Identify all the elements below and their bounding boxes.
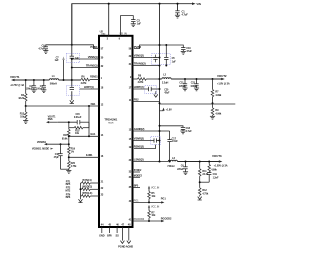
pin wire FB2 (133, 97, 160, 101)
pin wire PGOOD1 (133, 198, 162, 202)
svg-text:43.2k: 43.2k (18, 97, 24, 100)
junction top rail at right rail (158, 3, 160, 5)
svg-text:47uF: 47uF (186, 49, 192, 53)
svg-text:0.01uF: 0.01uF (74, 116, 82, 119)
svg-text:VOUT1: VOUT1 (10, 75, 20, 79)
svg-text:740nH: 740nH (167, 165, 174, 168)
capacitor C2 (output) (26, 80, 36, 90)
svg-text:47pF: 47pF (164, 92, 170, 95)
pin wire RSNS2 (134, 144, 156, 148)
svg-text:PVIN1: PVIN1 (90, 45, 98, 49)
svg-text:+1.8V @ 3A: +1.8V @ 3A (217, 82, 230, 85)
svg-text:PG1: PG1 (161, 197, 167, 201)
pin wire PVIN2 (134, 45, 160, 49)
dashed box comp ch2 (151, 137, 161, 145)
svg-text:FB1: FB1 (91, 102, 96, 106)
pin numbers left (101, 47, 104, 196)
svg-text:+0.75V @ 4A: +0.75V @ 4A (10, 84, 24, 87)
capacitor C15 (series, feedforward) (77, 120, 80, 124)
junction right rail TRANS2 (159, 65, 161, 67)
svg-text:1uF: 1uF (137, 21, 142, 25)
svg-text:SNS: SNS (48, 118, 53, 121)
svg-text:VCC_IN: VCC_IN (151, 206, 160, 209)
capacitor C16 branch (54, 144, 69, 169)
junction EA wire (68, 135, 90, 137)
svg-text:MT2: MT2 (65, 190, 70, 193)
junction ILIM (68, 156, 70, 158)
pin label FB1 (91, 102, 96, 106)
svg-text:+1.8V: +1.8V (166, 109, 173, 112)
capacitor C5a (boot ch2) (153, 55, 157, 63)
capacitor C5b (164, 44, 176, 67)
dashed box around C7 (66, 53, 79, 62)
IC U2 body (99, 36, 133, 227)
junction C22 (196, 78, 198, 80)
svg-text:(SYNC1): (SYNC1) (82, 179, 92, 182)
bottom pin stub AGND (107, 227, 112, 238)
resistor R21 (198, 162, 208, 188)
ground arrow snubber ch2 (154, 91, 158, 97)
svg-text:PGOOD2: PGOOD2 (134, 217, 145, 221)
inductor L1 (49, 74, 58, 85)
pin stub BP5 (nc) (133, 185, 141, 188)
label PGND AGND (118, 245, 133, 249)
ground arrow RT (78, 199, 82, 202)
svg-text:PVIN2: PVIN2 (134, 45, 142, 49)
capacitor C1 (175, 4, 188, 17)
port VOUT2 arrow (217, 74, 230, 85)
dashed box C5 ch2 (152, 54, 171, 65)
wire VOUT2 row (171, 78, 221, 80)
pin wire TRANS1 (72, 63, 99, 67)
junction comp left (68, 121, 70, 123)
svg-text:PGND AGND: PGND AGND (118, 245, 133, 249)
pin wire VSNR2 with series cap (133, 136, 160, 142)
resistor R8 (ch2 series) (133, 75, 160, 85)
bottom pin PGND (120, 227, 124, 243)
ground for C4 (41, 90, 46, 93)
port VOUT1 SNS arrow (46, 115, 58, 123)
svg-text:4.75k: 4.75k (71, 165, 77, 168)
capacitor C17 on vertical (167, 137, 178, 143)
junction rail VSNR2 (159, 140, 161, 142)
vertical x=169.6 (169, 131, 171, 162)
svg-text:PGOOD2: PGOOD2 (161, 216, 172, 220)
svg-text:VIN: VIN (196, 2, 200, 6)
bottom pin stub NC (116, 227, 120, 238)
svg-text:SYNC2: SYNC2 (134, 169, 142, 172)
pin wire TRANS2 (133, 61, 160, 65)
svg-text:4.75k: 4.75k (202, 192, 208, 195)
svg-text:(MODE2): (MODE2) (82, 185, 92, 188)
junction top rail at C1 (176, 3, 178, 5)
svg-text:2.87k: 2.87k (81, 82, 87, 85)
svg-text:4.99k: 4.99k (211, 168, 217, 171)
ground for C1 (175, 15, 180, 18)
junction rail AGND2 (159, 130, 161, 132)
junction PG2 (148, 220, 150, 222)
junction VOSNS1 wire at rail (60, 143, 70, 145)
pin wire SW2 row (133, 157, 169, 161)
ground for R20 (66, 170, 71, 173)
wire ILIM1 (69, 156, 99, 158)
RT row 1 (66, 179, 99, 186)
pin wire LDRT1 (80, 85, 99, 89)
pin label VIN (top pin 1) (101, 32, 105, 36)
svg-text:LDRT(1): LDRT(1) (84, 85, 94, 89)
junction left rail VSNS1 (71, 58, 73, 60)
svg-text:4.7uF: 4.7uF (38, 46, 45, 50)
inductor L2 (167, 156, 177, 168)
svg-text:80.6k: 80.6k (62, 137, 68, 140)
svg-text:FB2: FB2 (134, 97, 139, 101)
RC branch x=210.6 (208, 162, 218, 173)
svg-text:LDRT(2): LDRT(2) (134, 85, 144, 89)
wire comp top path (58, 106, 89, 136)
svg-text:VOUT2: VOUT2 (217, 74, 227, 78)
pin wire PGOOD2 (133, 217, 162, 221)
junction VOUT1 row at SW1 flag (63, 79, 65, 81)
junction FB node (25, 105, 27, 107)
svg-text:VOUT3: VOUT3 (212, 154, 222, 158)
svg-text:1uF: 1uF (172, 60, 177, 63)
junction right rail VSNS2 (159, 57, 161, 59)
pin stub MODE2 (nc) (133, 174, 143, 177)
junction VOUT1 row at rail (71, 79, 73, 81)
svg-text:4.7uF: 4.7uF (182, 12, 189, 16)
junction at R4 top (25, 79, 27, 81)
port VOUT1 arrow (10, 75, 24, 87)
flag +1.8V mid (160, 108, 173, 112)
arrow PG1 (161, 197, 167, 204)
pull-up R5 (148, 186, 160, 203)
capacitor C4 (output) (36, 80, 46, 91)
junction at C2 (33, 79, 35, 81)
capacitor C8 (snubber) (70, 88, 74, 90)
resistor R20 (68, 161, 78, 170)
capacitor C3 (VCC bypass) (131, 18, 141, 25)
arrow PG2 (161, 216, 172, 222)
pin numbers right (129, 47, 132, 221)
wire: U2_IN bracket (121, 16, 134, 36)
resistor R9 (lower divider ch2) (211, 103, 222, 116)
svg-text:VOSNS1_MODE: VOSNS1_MODE (32, 147, 50, 150)
svg-text:220uF: 220uF (179, 85, 186, 88)
ground for C21 (182, 88, 187, 91)
svg-text:47pF: 47pF (54, 156, 60, 159)
resistor R6 (series to pin) (81, 75, 99, 85)
junction RC branch top (208, 161, 210, 163)
svg-text:RGJR: RGJR (108, 123, 114, 125)
svg-text:4.7uF: 4.7uF (186, 130, 193, 133)
svg-text:VSNR(2): VSNR(2) (134, 136, 144, 140)
svg-text:2.2uH: 2.2uH (162, 82, 169, 85)
capacitor C7 (boot) (54, 56, 79, 62)
svg-text:VIN: VIN (101, 32, 105, 36)
svg-text:BP5: BP5 (107, 235, 112, 238)
junction C6 (185, 161, 187, 163)
svg-text:RSNS1: RSNS1 (90, 76, 98, 79)
wire: VIN pin drop (108, 4, 110, 36)
svg-text:RSNS(2): RSNS(2) (134, 144, 144, 148)
ground arrow divider (198, 197, 202, 200)
pin numbers bottom (101, 224, 131, 227)
svg-text:VCC_IN: VCC_IN (151, 186, 160, 189)
comp network labels C15 (74, 113, 82, 119)
svg-text:LSNS(2): LSNS(2) (134, 157, 144, 161)
RT row 2 (65, 185, 99, 192)
svg-text:560nH: 560nH (50, 83, 57, 86)
svg-text:2.87k: 2.87k (138, 81, 144, 84)
inductor L2 (160, 73, 172, 84)
port VOUT2 arrow (212, 154, 228, 167)
svg-text:VSNS(1): VSNS(1) (88, 55, 98, 59)
wire: VOUT1 row (15, 79, 81, 81)
junction right rail LDRT2 (159, 88, 161, 90)
svg-text:VSNS(2): VSNS(2) (134, 53, 144, 57)
svg-text:TRANS(1): TRANS(1) (86, 63, 98, 67)
wire FB2 to divider (160, 103, 236, 105)
junction PG1 (148, 201, 150, 203)
junction left rail at C9 (71, 44, 73, 46)
capacitor C9 (input bypass left) (38, 43, 71, 50)
net flag SW1 (grey arrow) (62, 56, 65, 80)
pull-up R7 (148, 205, 160, 221)
refdes U2 (100, 29, 104, 33)
svg-text:1.2nF: 1.2nF (213, 176, 219, 179)
pin wire PVIN1 (72, 45, 99, 49)
port VIN arrow (192, 2, 201, 6)
port VOSNS1 arrow (32, 141, 69, 151)
svg-text:100uF: 100uF (190, 85, 197, 88)
svg-text:MODE2: MODE2 (134, 174, 143, 177)
capacitor C21 (179, 79, 187, 88)
junction right rail PVIN2 (158, 44, 160, 46)
ground arrow below snubber ch1 (70, 100, 74, 103)
svg-text:BP6: BP6 (66, 196, 71, 199)
svg-text:4.99k: 4.99k (215, 94, 221, 97)
resistor R19 (68, 147, 76, 161)
capacitor C10 (181, 46, 192, 53)
wire comp bottom (EA1) (69, 128, 99, 147)
pin wire VSNS1 (72, 55, 99, 59)
junction at 89,106 (88, 105, 90, 107)
resistor R13 (lower divider) (20, 106, 27, 121)
ground for C9 (43, 51, 48, 54)
junction right rail FB2 (159, 102, 161, 104)
input cap wire ch2 (160, 45, 184, 48)
resistor R4 (upper divider) (18, 80, 27, 106)
wire: top VIN rail (72, 4, 192, 45)
svg-text:1.5nF: 1.5nF (172, 140, 179, 143)
junction top rail at VIN pin (108, 3, 110, 5)
svg-text:AGND(2): AGND(2) (134, 127, 145, 131)
junction VOUT2 divider top (212, 78, 214, 80)
ground for C22 (194, 88, 199, 91)
bottom pin stub GND (99, 227, 105, 238)
junction at C4 (43, 79, 45, 81)
dashed box snubber ch1 (66, 86, 79, 96)
svg-text:VOSNS1: VOSNS1 (37, 141, 47, 144)
svg-text:SS: SS (116, 235, 120, 238)
junction SW2 rail (158, 160, 170, 162)
pin label ILIM1 (86, 153, 93, 157)
ground for R13 (23, 121, 28, 124)
svg-text:4.99k: 4.99k (215, 112, 221, 115)
wire VOUT2 row (177, 161, 219, 163)
svg-text:220uF: 220uF (177, 168, 184, 171)
junction RT rail (80, 188, 82, 190)
ground for C10 (181, 51, 186, 54)
junction R21 top (199, 161, 201, 163)
junction C21 (184, 78, 186, 80)
pin stub SYNC2 (nc) (133, 169, 143, 172)
svg-text:+1.05V @ 3A: +1.05V @ 3A (214, 165, 228, 168)
pin label EA1 (90, 132, 96, 136)
right rail ch2 (159, 4, 161, 162)
wire mid cap ch2 (160, 126, 184, 128)
IC U2 part number label (104, 118, 117, 125)
label C20 47pF (164, 88, 170, 94)
resistor R7 (upper divider ch2) (211, 79, 222, 103)
capacitor C18 (181, 127, 192, 133)
wire FB1 node (26, 105, 99, 107)
capacitor C19 (200, 173, 219, 183)
left rail (BOOT/SW channel 1) (71, 4, 73, 101)
svg-text:GND: GND (99, 235, 105, 238)
svg-text:TPS54J061: TPS54J061 (104, 118, 117, 122)
pin wire AGND2 (133, 127, 170, 131)
ground for R9 (210, 116, 215, 119)
label R16 80.6k (62, 134, 68, 140)
ground for C3 (131, 24, 136, 27)
svg-text:ILIM1: ILIM1 (86, 153, 93, 157)
junction right rail R8 (158, 78, 160, 80)
ground for C6 (183, 172, 188, 175)
capacitor C22 (190, 79, 198, 88)
svg-text:PG1: PG1 (134, 198, 140, 202)
svg-text:TRANS(2): TRANS(2) (134, 61, 146, 65)
capacitor C6 (177, 162, 188, 172)
pin wire LDRT2 with series cap (133, 85, 160, 91)
svg-text:1uF: 1uF (54, 59, 59, 62)
resistor R15 (parallel path) (69, 122, 89, 135)
RT common rail (80, 183, 82, 199)
svg-text:EA1: EA1 (90, 132, 96, 136)
svg-text:BP5: BP5 (134, 185, 139, 188)
pin wire VSNS2 (133, 53, 160, 57)
resistor R24 (198, 188, 208, 197)
ground for C18 (180, 131, 185, 134)
junction left rail TRANS1 (71, 67, 73, 69)
RT row 3 (66, 192, 99, 199)
svg-text:(RT/CLK): (RT/CLK) (82, 192, 92, 195)
junction divider mid (199, 181, 201, 183)
junction FB2 node (212, 102, 214, 104)
resistor R16 (68, 129, 71, 136)
dashed box snubber ch2 (145, 86, 157, 94)
pin label U2_IN (top pin 2) (120, 32, 127, 36)
ground for C2 (31, 90, 36, 93)
bottom pin AGND arrow (127, 227, 131, 243)
junction rail mid cap (159, 125, 161, 127)
pin numbers top (107, 38, 121, 41)
